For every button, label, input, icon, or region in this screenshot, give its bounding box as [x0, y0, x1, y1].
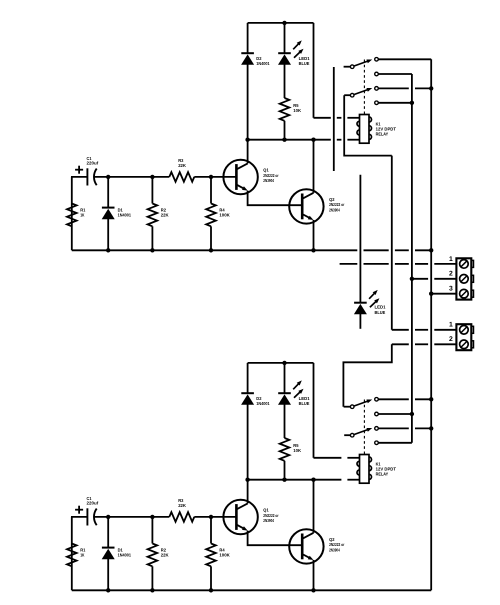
- resistor R3 22K (top): [169, 172, 194, 182]
- svg-text:BLUE: BLUE: [299, 61, 310, 66]
- svg-text:1K: 1K: [80, 552, 85, 557]
- svg-text:22K: 22K: [178, 503, 187, 508]
- svg-text:1: 1: [449, 256, 453, 263]
- svg-text:BLUE: BLUE: [375, 310, 386, 315]
- wire TB1 pin1 row (gaps): [340, 263, 358, 265]
- wire ground rail (top): [72, 249, 314, 251]
- wire Q1 emitter to Q2 base (top): [248, 191, 303, 206]
- resistor R2 22K (bottom): [151, 517, 153, 544]
- node gnd-R2 (top): [150, 248, 154, 252]
- transistor Q2 2N2222 (bottom): [289, 529, 323, 563]
- capacitor C1 (bottom): [86, 508, 88, 525]
- wire Q2 collector (top): [313, 140, 315, 193]
- wire rail C1 to R3 (bottom): [94, 516, 169, 518]
- wire A1 contact to bus (top): [378, 58, 431, 60]
- svg-text:22K: 22K: [161, 212, 170, 217]
- relay K1 contact B1 (bottom): [375, 427, 379, 431]
- wire ground extension (top, gaps): [314, 249, 358, 251]
- svg-text:1: 1: [449, 322, 453, 329]
- resistor R4 100K (top): [210, 177, 212, 204]
- svg-text:2N2222 or: 2N2222 or: [263, 173, 279, 178]
- wire B1 contact to bus (top): [378, 87, 408, 89]
- relay K1 contact B2 (top): [375, 101, 379, 105]
- node rail-R4 (bottom): [209, 515, 213, 519]
- node gnd-Q2e (top): [311, 248, 315, 252]
- svg-text:LED1: LED1: [299, 396, 311, 401]
- resistor R5 10K (bottom): [280, 438, 290, 461]
- node pin3-A1B1: [429, 292, 433, 296]
- svg-text:LED1: LED1: [375, 305, 387, 310]
- resistor R2 22K (top): [151, 177, 153, 204]
- wire B2 contact to bus (top): [378, 102, 412, 104]
- svg-text:2N2222 or: 2N2222 or: [329, 202, 345, 207]
- resistor R4 100K (bottom): [210, 517, 212, 544]
- svg-text:Q2: Q2: [329, 537, 335, 542]
- relay K1 contact A1 (bottom): [375, 398, 379, 402]
- svg-text:3: 3: [449, 285, 453, 292]
- diode D1 1N4001 (top): [107, 177, 109, 208]
- relay K1 pole A (bottom): [344, 406, 351, 408]
- wire top rail to C1 (top): [71, 176, 87, 178]
- relay K1 contact B2 (bottom): [375, 441, 379, 445]
- node B2-bus (top): [410, 101, 414, 105]
- node crail-Q2c (top): [311, 138, 315, 142]
- relay K1 contact A1 (top): [375, 58, 379, 62]
- svg-text:10K: 10K: [293, 448, 302, 453]
- relay K1 pole B (bottom): [344, 434, 350, 436]
- wire TB2 pin2 row (gaps): [392, 343, 409, 345]
- svg-text:2: 2: [449, 271, 453, 278]
- resistor R1 1K (top): [67, 204, 77, 227]
- wire rail C1 to R3 (top): [94, 176, 169, 178]
- svg-text:1N4001: 1N4001: [256, 401, 270, 406]
- node rail-D1 (top): [106, 175, 110, 179]
- svg-text:22K: 22K: [178, 163, 187, 168]
- wire top rail D2-LED (bottom): [248, 362, 314, 364]
- wire top rail to C1 (bottom): [71, 516, 87, 518]
- LED LED1 BLUE (middle): [359, 175, 361, 303]
- svg-text:220uf: 220uf: [87, 501, 99, 506]
- wire Q2 emitter (bottom): [313, 560, 315, 590]
- node A2-bus (bottom): [410, 412, 414, 416]
- node gnd-R4 (top): [209, 248, 213, 252]
- node A1-bus (bottom): [429, 397, 433, 401]
- wire bus pole-B-top vertical: [391, 156, 393, 330]
- svg-text:220uf: 220uf: [87, 161, 99, 166]
- diode D2 1N4001 (bottom): [247, 363, 249, 393]
- wire down to relay coil (bottom): [313, 363, 315, 458]
- diode D2 1N4001 (top): [247, 23, 249, 53]
- node rail-D1 (bottom): [106, 515, 110, 519]
- svg-text:1K: 1K: [80, 212, 85, 217]
- wire B2 contact to bus (bottom): [378, 442, 412, 444]
- wire left vertical rail (top): [71, 177, 73, 250]
- wire B1 contact to bus (bottom): [378, 427, 408, 429]
- wire collector rail (top): [248, 139, 314, 141]
- wire coil lead top (bottom relay): [314, 457, 342, 459]
- wire pole B riser (top): [344, 95, 392, 155]
- relay K1 linkage (top): [363, 60, 365, 115]
- node gnd-Q2e (bottom): [311, 588, 315, 592]
- wire R3 to Q1 base (bottom): [194, 516, 236, 518]
- svg-text:Q1: Q1: [263, 508, 269, 513]
- svg-text:1N4001: 1N4001: [256, 61, 270, 66]
- wire stub vertical near pole A (top): [333, 67, 335, 171]
- transistor Q1 2N2222 (top): [223, 160, 257, 194]
- node gnd-D1 (top): [106, 248, 110, 252]
- LED LED1 BLUE (top): [284, 23, 286, 53]
- node crail-D2 (bottom): [245, 478, 249, 482]
- relay K1 contact A2 (top): [375, 72, 379, 76]
- svg-text:2: 2: [449, 336, 453, 343]
- svg-text:2N3904: 2N3904: [263, 518, 274, 523]
- resistor R5 10K (top): [280, 98, 290, 121]
- node gnd-D1 (bottom): [106, 588, 110, 592]
- wire Q1 collector (top): [247, 140, 249, 164]
- node crail-Q2c (bottom): [311, 478, 315, 482]
- svg-text:RELAY: RELAY: [376, 132, 389, 137]
- svg-text:BLUE: BLUE: [299, 401, 310, 406]
- svg-text:2N2222 or: 2N2222 or: [263, 513, 279, 518]
- wire Q2 emitter (top): [313, 220, 315, 250]
- wire bus A1B1 vertical: [430, 59, 432, 590]
- node pin2-A2B2: [410, 277, 414, 281]
- node gnd-R2 (bottom): [150, 588, 154, 592]
- svg-text:2N2222 or: 2N2222 or: [329, 542, 345, 547]
- wire ground extension (bottom): [314, 589, 432, 591]
- node ground-bus (top): [429, 248, 433, 252]
- relay K1 pole A (top): [344, 66, 351, 68]
- diode D1 1N4001 (bottom): [107, 517, 109, 548]
- transistor Q2 2N2222 (top): [289, 189, 323, 223]
- svg-text:LED1: LED1: [299, 56, 311, 61]
- node B1-bus (top): [429, 86, 433, 90]
- svg-text:Q1: Q1: [263, 168, 269, 173]
- wire ground rail (bottom): [72, 589, 314, 591]
- wire bus A2B2 vertical: [411, 74, 413, 443]
- transistor Q1 2N2222 (bottom): [223, 500, 257, 534]
- node toprail-LED (bottom): [282, 361, 286, 365]
- relay K1 coil (top): [360, 115, 370, 144]
- svg-text:2N3904: 2N3904: [263, 178, 274, 183]
- wire left vertical rail (bottom): [71, 517, 73, 590]
- terminal block TB2: [456, 324, 471, 350]
- relay K1 contact A2 (bottom): [375, 412, 379, 416]
- LED LED1 BLUE (bottom): [284, 363, 286, 393]
- svg-text:100K: 100K: [219, 552, 230, 557]
- node crail-R5 (top): [282, 138, 286, 142]
- wire Q2 collector (bottom): [313, 480, 315, 533]
- relay K1 coil (bottom): [360, 455, 370, 484]
- capacitor C1 (top): [86, 168, 88, 185]
- relay K1 contact B1 (top): [375, 87, 379, 91]
- node B1-bus (bottom): [429, 426, 433, 430]
- node gnd-R4 (bottom): [209, 588, 213, 592]
- wire coil lead top (gaps): [314, 117, 331, 119]
- wire A1 contact to bus (bottom): [378, 398, 408, 400]
- wire TB2 pin2 to bottom pole A: [343, 344, 391, 406]
- wire A2 contact to bus (bottom): [378, 413, 412, 415]
- wire TB1 pin3 row: [431, 293, 456, 295]
- svg-text:1N4001: 1N4001: [118, 552, 132, 557]
- wire TB2 pin1 row (gaps): [392, 329, 409, 331]
- node rail-R2 (top): [150, 175, 154, 179]
- node rail-R2 (bottom): [150, 515, 154, 519]
- svg-text:10K: 10K: [293, 108, 302, 113]
- svg-text:100K: 100K: [219, 212, 230, 217]
- wire TB1 pin2 row: [412, 278, 428, 280]
- wire collector rail (bottom): [248, 479, 314, 481]
- wire Q1 emitter to Q2 base (bottom): [248, 531, 303, 546]
- wire coil lead bottom (bottom relay): [314, 479, 342, 481]
- wire Q1 collector (bottom): [247, 480, 249, 504]
- relay K1 linkage (bottom): [363, 400, 365, 455]
- resistor R3 22K (bottom): [169, 512, 194, 522]
- wire coil lead bottom (gaps): [314, 139, 331, 141]
- resistor R1 1K (bottom): [67, 544, 77, 567]
- svg-text:1N4001: 1N4001: [118, 212, 132, 217]
- terminal block TB1: [456, 258, 471, 299]
- node crail-R5 (bottom): [282, 478, 286, 482]
- node rail-R4 (top): [209, 175, 213, 179]
- svg-text:RELAY: RELAY: [376, 472, 389, 477]
- relay K1 pole B (top): [344, 94, 350, 96]
- wire A2 contact to bus (top): [378, 73, 412, 75]
- wire R3 to Q1 base (top): [194, 176, 236, 178]
- wire down to relay coil (top): [313, 23, 315, 118]
- svg-text:Q2: Q2: [329, 197, 335, 202]
- node toprail-LED (top): [282, 21, 286, 25]
- svg-text:22K: 22K: [161, 552, 170, 557]
- svg-text:2N3904: 2N3904: [329, 548, 340, 553]
- wire top rail D2-LED (top): [248, 22, 314, 24]
- node crail-D2 (top): [245, 138, 249, 142]
- svg-text:2N3904: 2N3904: [329, 208, 340, 213]
